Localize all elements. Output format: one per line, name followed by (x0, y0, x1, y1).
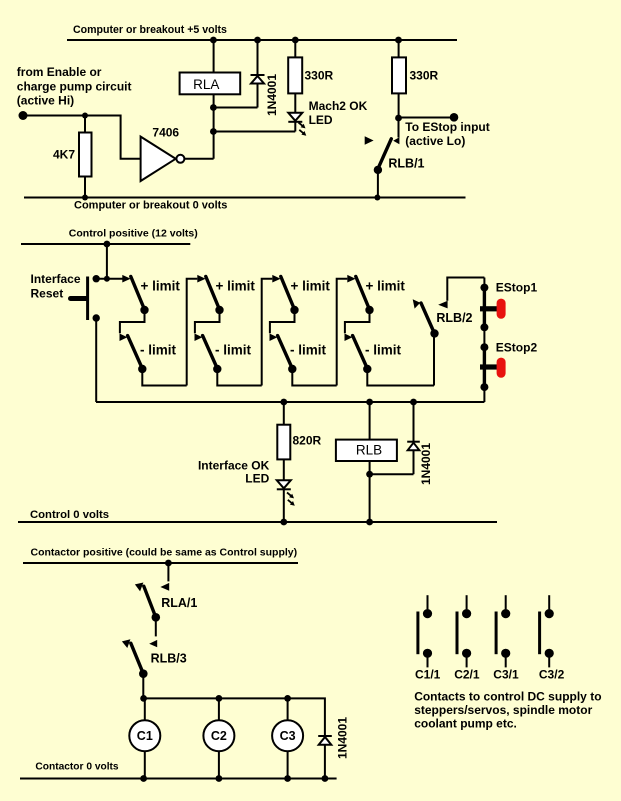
svg-text:C1: C1 (137, 729, 153, 743)
svg-text:C3/2: C3/2 (539, 668, 565, 682)
svg-text:Contactor 0 volts: Contactor 0 volts (35, 761, 119, 772)
svg-text:4K7: 4K7 (53, 147, 75, 161)
svg-text:330R: 330R (410, 68, 439, 82)
svg-text:LED: LED (245, 472, 269, 486)
svg-text:C2: C2 (211, 729, 227, 743)
svg-text:- limit: - limit (365, 342, 402, 357)
svg-text:Interface OK: Interface OK (198, 459, 270, 473)
svg-text:coolant pump etc.: coolant pump etc. (414, 717, 517, 731)
svg-text:C1/1: C1/1 (415, 668, 441, 682)
svg-text:330R: 330R (305, 68, 334, 82)
svg-text:- limit: - limit (290, 342, 327, 357)
svg-text:RLA: RLA (193, 77, 219, 92)
svg-text:- limit: - limit (215, 342, 252, 357)
svg-text:RLB/3: RLB/3 (151, 652, 187, 666)
svg-text:(active Lo): (active Lo) (405, 134, 465, 148)
svg-text:+ limit: + limit (141, 278, 181, 293)
svg-text:C3: C3 (280, 729, 296, 743)
svg-text:Mach2 OK: Mach2 OK (309, 99, 368, 113)
svg-text:charge pump circuit: charge pump circuit (17, 79, 132, 93)
svg-text:C3/1: C3/1 (493, 668, 519, 682)
svg-text:RLB/2: RLB/2 (436, 311, 472, 325)
svg-text:Interface: Interface (31, 272, 81, 286)
svg-text:steppers/servos, spindle motor: steppers/servos, spindle motor (414, 703, 592, 717)
svg-text:Computer or breakout +5 volts: Computer or breakout +5 volts (73, 24, 227, 36)
svg-text:7406: 7406 (152, 126, 179, 140)
svg-text:RLA/1: RLA/1 (161, 596, 197, 610)
svg-text:+ limit: + limit (216, 278, 256, 293)
svg-text:Computer or breakout 0 volts: Computer or breakout 0 volts (74, 200, 227, 212)
svg-text:Control 0 volts: Control 0 volts (30, 509, 109, 521)
svg-text:EStop2: EStop2 (496, 340, 538, 354)
svg-text:from Enable or: from Enable or (17, 65, 102, 79)
svg-text:+ limit: + limit (291, 278, 331, 293)
svg-text:Contacts to control DC supply: Contacts to control DC supply to (414, 690, 601, 704)
svg-text:RLB/1: RLB/1 (388, 157, 424, 171)
svg-text:Contactor positive (could be s: Contactor positive (could be same as Con… (31, 546, 298, 558)
svg-text:RLB: RLB (356, 443, 382, 458)
svg-text:To EStop input: To EStop input (405, 120, 489, 134)
svg-text:820R: 820R (293, 434, 322, 448)
svg-text:1N4001: 1N4001 (335, 717, 349, 759)
svg-text:Control positive (12 volts): Control positive (12 volts) (69, 227, 198, 239)
svg-text:1N4001: 1N4001 (265, 74, 279, 116)
svg-text:C2/1: C2/1 (454, 668, 480, 682)
svg-text:EStop1: EStop1 (496, 281, 538, 295)
svg-text:(active Hi): (active Hi) (17, 94, 74, 108)
svg-text:+ limit: + limit (366, 278, 406, 293)
svg-text:- limit: - limit (140, 342, 177, 357)
svg-text:1N4001: 1N4001 (419, 443, 433, 485)
svg-text:LED: LED (309, 113, 333, 127)
svg-text:Reset: Reset (31, 286, 64, 300)
